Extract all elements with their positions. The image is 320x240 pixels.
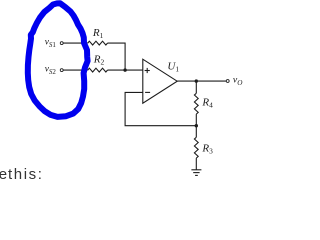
svg-text:U1: U1 bbox=[167, 61, 179, 74]
svg-text:R3: R3 bbox=[201, 142, 213, 155]
svg-text:R4: R4 bbox=[201, 96, 213, 109]
svg-text:vS1: vS1 bbox=[45, 38, 57, 49]
svg-text:R2: R2 bbox=[93, 53, 105, 66]
svg-text:R1: R1 bbox=[92, 27, 104, 40]
svg-text:vO: vO bbox=[233, 75, 243, 87]
svg-text:vS2: vS2 bbox=[45, 65, 57, 76]
